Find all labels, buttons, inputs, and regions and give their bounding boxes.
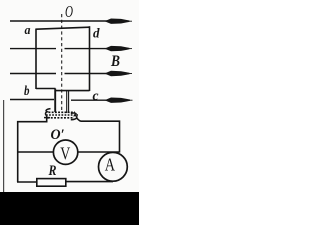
axis OO' dashed <box>61 14 63 112</box>
svg-text:b: b <box>24 83 30 98</box>
coil side ab (left) <box>35 29 37 90</box>
svg-text:R: R <box>48 163 57 179</box>
brush right <box>71 113 77 120</box>
coil side axis-c (bottom right) <box>56 90 90 92</box>
coil side dc (right) <box>89 26 91 91</box>
scan black band <box>0 192 139 225</box>
wire: voltmeter to right rail <box>78 151 120 153</box>
svg-text:B: B <box>110 53 120 70</box>
scan left edge line <box>3 100 4 192</box>
slip ring 1 (edge-on, dotted) <box>46 112 78 118</box>
svg-text:a: a <box>25 22 31 37</box>
voltmeter U1 (V) <box>53 140 77 164</box>
svg-text:V: V <box>60 144 70 164</box>
field line 1 <box>10 19 132 24</box>
field line 3 <box>10 71 132 76</box>
svg-text:O: O <box>65 2 73 21</box>
wire: bottom rail right to ammeter <box>66 181 113 183</box>
svg-text:d: d <box>93 26 100 41</box>
wire: right brush to right rail <box>76 118 120 153</box>
lead wire right (axis to slip ring) <box>66 91 68 113</box>
wire: left rail to voltmeter <box>18 151 54 153</box>
lead wire left (axis to slip ring) <box>54 89 56 113</box>
coil side ad (top) <box>36 27 90 29</box>
field line 2 <box>10 46 132 51</box>
wire: bottom rail left <box>17 181 37 183</box>
coil side b-axis (bottom left) <box>36 88 56 90</box>
slip ring 2 (edge-on, dotted) <box>48 117 75 119</box>
ammeter U2 (A) <box>99 152 128 181</box>
svg-text:c: c <box>93 89 100 104</box>
brush left <box>45 109 50 116</box>
field line 4 <box>10 98 133 103</box>
wire: left brush to left rail <box>18 116 47 183</box>
resistor R1 box <box>37 179 66 187</box>
svg-text:A: A <box>105 155 115 175</box>
